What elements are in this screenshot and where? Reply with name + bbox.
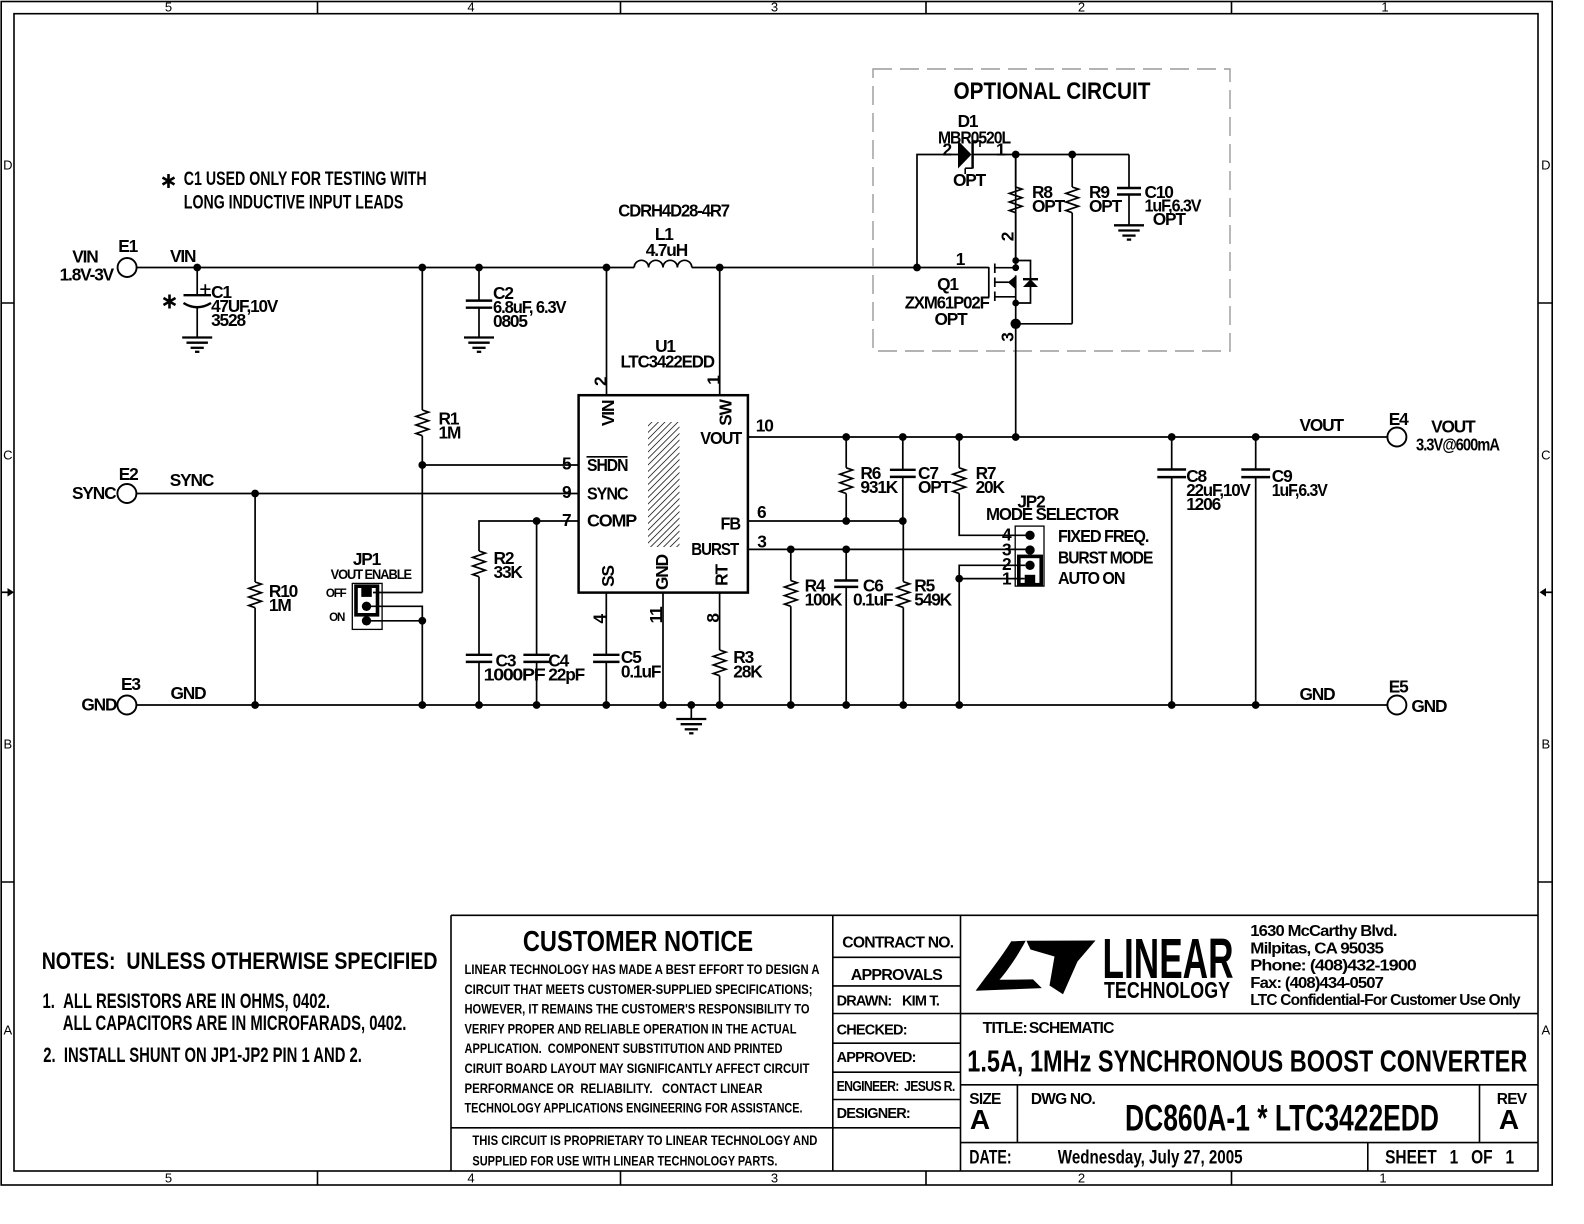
capacitor C1 (polarized, with asterisk) bbox=[164, 268, 279, 338]
svg-text:AUTO ON: AUTO ON bbox=[1058, 568, 1125, 588]
svg-text:GND: GND bbox=[1300, 684, 1336, 704]
svg-text:3: 3 bbox=[771, 0, 778, 15]
svg-text:5: 5 bbox=[165, 0, 172, 15]
svg-text:3: 3 bbox=[771, 1171, 778, 1186]
svg-text:CONTRACT NO.: CONTRACT NO. bbox=[842, 935, 953, 952]
node VIN terminal E1 bbox=[60, 236, 196, 284]
capacitor C2 bbox=[466, 268, 567, 338]
svg-text:GND: GND bbox=[1411, 696, 1447, 716]
svg-text:5: 5 bbox=[165, 1171, 172, 1186]
resistor R3 bbox=[713, 647, 763, 705]
svg-text:GND: GND bbox=[171, 683, 207, 703]
U1 pin 11 GND stub bbox=[646, 593, 666, 705]
capacitor C8 bbox=[1157, 437, 1251, 705]
junction dots GND rail bbox=[251, 701, 1259, 709]
svg-text:SW: SW bbox=[716, 398, 736, 425]
capacitor C4 bbox=[523, 521, 584, 705]
svg-text:OPT: OPT bbox=[1153, 209, 1187, 229]
svg-text:TECHNOLOGY APPLICATIONS ENGINE: TECHNOLOGY APPLICATIONS ENGINEERING FOR … bbox=[465, 1101, 803, 1116]
svg-text:THIS CIRCUIT IS PROPRIETARY TO: THIS CIRCUIT IS PROPRIETARY TO LINEAR TE… bbox=[472, 1133, 817, 1148]
capacitor C7 bbox=[890, 437, 952, 521]
svg-text:MODE SELECTOR: MODE SELECTOR bbox=[986, 504, 1120, 524]
ground symbol on GND rail bbox=[690, 705, 692, 719]
svg-text:VOUT ENABLE: VOUT ENABLE bbox=[331, 567, 412, 583]
svg-text:VOUT: VOUT bbox=[1300, 415, 1345, 435]
resistor R7 bbox=[953, 437, 1026, 535]
svg-text:TECHNOLOGY: TECHNOLOGY bbox=[1104, 977, 1230, 1003]
svg-text:11: 11 bbox=[646, 606, 666, 624]
svg-text:NOTES: UNLESS OTHERWISE SPECI: NOTES: UNLESS OTHERWISE SPECIFIED bbox=[42, 948, 438, 975]
svg-text:2: 2 bbox=[590, 377, 610, 386]
zone tick marks left border bbox=[1, 303, 14, 882]
svg-text:VOUT: VOUT bbox=[700, 428, 743, 448]
zone tick marks right border bbox=[1538, 303, 1552, 882]
svg-text:549K: 549K bbox=[914, 590, 952, 610]
svg-text:B: B bbox=[1541, 737, 1550, 752]
svg-text:1630 McCarthy Blvd.: 1630 McCarthy Blvd. bbox=[1250, 923, 1397, 940]
svg-text:3528: 3528 bbox=[211, 310, 246, 330]
capacitor C5 bbox=[593, 647, 661, 705]
ground below rail bbox=[676, 719, 706, 733]
U1 pin 1 SW stub bbox=[703, 268, 723, 396]
wire SW net (L1 right to Q1 gate, D1 branch) bbox=[692, 155, 989, 268]
node GND terminal E3 bbox=[81, 674, 206, 715]
title block frame lines bbox=[451, 915, 1538, 1171]
svg-text:RT: RT bbox=[712, 564, 732, 586]
wire GND rail (E3 to E5) bbox=[136, 704, 1387, 706]
wire COMP net (U1 pin 7 to R2/C3, C4 branch) bbox=[479, 517, 579, 551]
jumper JP1 VOUT ENABLE bbox=[326, 549, 412, 629]
customer notice text bbox=[465, 926, 820, 1169]
node GND terminal E5 bbox=[1300, 676, 1448, 716]
svg-text:VERIFY PROPER AND RELIABLE OPE: VERIFY PROPER AND RELIABLE OPERATION IN … bbox=[465, 1021, 797, 1036]
zone column numbers top bbox=[165, 0, 1389, 15]
centering arrow right border bbox=[1540, 588, 1553, 597]
svg-text:SHEET 1 OF 1: SHEET 1 OF 1 bbox=[1385, 1148, 1514, 1169]
svg-text:0.1uF: 0.1uF bbox=[621, 662, 661, 682]
svg-text:B: B bbox=[3, 737, 12, 752]
capacitor C3 bbox=[466, 651, 545, 706]
svg-text:C: C bbox=[3, 448, 12, 463]
svg-text:FB: FB bbox=[721, 514, 741, 534]
svg-text:D: D bbox=[3, 158, 12, 173]
U1 pin 2 VIN stub bbox=[590, 268, 610, 396]
svg-text:Wednesday, July 27, 2005: Wednesday, July 27, 2005 bbox=[1058, 1148, 1243, 1169]
note text C1 usage bbox=[163, 169, 427, 213]
svg-text:E2: E2 bbox=[119, 464, 138, 484]
svg-text:SHDN: SHDN bbox=[587, 455, 628, 475]
svg-text:7: 7 bbox=[562, 510, 571, 530]
svg-text:1. ALL RESISTORS ARE IN OHMS,: 1. ALL RESISTORS ARE IN OHMS, 0402. bbox=[43, 990, 331, 1013]
svg-text:1uF,6.3V: 1uF,6.3V bbox=[1272, 480, 1328, 500]
U1 pin 6 number bbox=[757, 502, 766, 522]
op-amp U1 LTC3422EDD box bbox=[579, 336, 748, 593]
svg-text:33K: 33K bbox=[494, 562, 524, 582]
svg-text:SUPPLIED FOR USE WITH LINEAR T: SUPPLIED FOR USE WITH LINEAR TECHNOLOGY … bbox=[472, 1154, 777, 1169]
svg-text:E4: E4 bbox=[1389, 409, 1409, 429]
svg-text:FIXED FREQ.: FIXED FREQ. bbox=[1058, 526, 1149, 546]
svg-text:GND: GND bbox=[652, 554, 672, 590]
ground below C2 bbox=[464, 338, 494, 352]
centering arrow left border bbox=[1, 588, 14, 597]
svg-text:1: 1 bbox=[1379, 1171, 1386, 1186]
svg-text:SYNC: SYNC bbox=[170, 470, 214, 490]
svg-text:DWG NO.: DWG NO. bbox=[1031, 1091, 1096, 1108]
svg-text:OPTIONAL CIRCUIT: OPTIONAL CIRCUIT bbox=[954, 78, 1151, 105]
wire BURST net (U1 pin 3 to JP2 pin 3) bbox=[748, 546, 1026, 554]
svg-text:ENGINEER: JESUS R.: ENGINEER: JESUS R. bbox=[837, 1079, 956, 1095]
optional circuit dashed boundary bbox=[873, 69, 1230, 351]
size / dwg / rev row bbox=[969, 1091, 1527, 1138]
optional circuit title bbox=[954, 78, 1151, 105]
title text bbox=[967, 1020, 1527, 1079]
svg-text:OPT: OPT bbox=[1089, 196, 1123, 216]
svg-text:APPROVALS: APPROVALS bbox=[851, 967, 943, 984]
svg-text:DATE:: DATE: bbox=[969, 1148, 1011, 1169]
svg-text:VIN: VIN bbox=[170, 246, 196, 266]
svg-text:CIRUIT BOARD LAYOUT MAY SIGNIF: CIRUIT BOARD LAYOUT MAY SIGNIFICANTLY AF… bbox=[465, 1061, 811, 1076]
svg-text:3: 3 bbox=[998, 333, 1018, 342]
svg-text:9: 9 bbox=[562, 482, 571, 502]
U1 pin 4 SS stub bbox=[590, 593, 610, 655]
svg-text:1: 1 bbox=[1381, 0, 1388, 15]
svg-text:HOWEVER, IT REMAINS THE CUSTOM: HOWEVER, IT REMAINS THE CUSTOMER'S RESPO… bbox=[465, 1002, 810, 1017]
svg-text:OPT: OPT bbox=[953, 170, 987, 190]
zone column numbers bottom bbox=[165, 1171, 1387, 1186]
svg-text:BURST: BURST bbox=[691, 539, 739, 559]
capacitor C10 bbox=[1117, 155, 1202, 230]
svg-text:4: 4 bbox=[467, 0, 474, 15]
resistor R9 bbox=[1066, 155, 1123, 324]
svg-text:A: A bbox=[3, 1023, 12, 1038]
svg-text:OPT: OPT bbox=[934, 309, 968, 329]
svg-text:Phone: (408)432-1900: Phone: (408)432-1900 bbox=[1250, 958, 1416, 975]
svg-text:DRAWN:: DRAWN: bbox=[837, 994, 892, 1010]
svg-text:GND: GND bbox=[81, 695, 117, 715]
U1 pin 8 RT stub bbox=[703, 593, 723, 650]
svg-text:DC860A-1 * LTC3422EDD: DC860A-1 * LTC3422EDD bbox=[1125, 1097, 1439, 1139]
svg-text:2: 2 bbox=[1078, 0, 1085, 15]
svg-text:A: A bbox=[1541, 1023, 1550, 1038]
capacitor C9 bbox=[1241, 437, 1328, 705]
svg-text:A: A bbox=[970, 1104, 990, 1135]
resistor R8 bbox=[1009, 155, 1065, 261]
svg-text:COMP: COMP bbox=[587, 511, 637, 531]
wire FB net (U1 pin 6 to R6/C7/R5) bbox=[748, 517, 907, 525]
U1 pin 7 number bbox=[562, 510, 571, 530]
notes text block bbox=[42, 948, 438, 1067]
svg-text:ALL CAPACITORS ARE IN MICROFAR: ALL CAPACITORS ARE IN MICROFARADS, 0402. bbox=[63, 1012, 407, 1035]
resistor R5 bbox=[897, 521, 953, 705]
svg-text:KIM T.: KIM T. bbox=[902, 994, 940, 1010]
resistor R1 bbox=[416, 268, 461, 593]
svg-text:1.5A, 1MHz SYNCHRONOUS BOOST C: 1.5A, 1MHz SYNCHRONOUS BOOST CONVERTER bbox=[967, 1043, 1527, 1078]
wire JP1 pin2 to ground drop bbox=[371, 606, 422, 621]
svg-text:OFF: OFF bbox=[326, 587, 347, 600]
zone tick marks top border bbox=[318, 2, 1232, 14]
svg-text:APPLICATION. COMPONENT SUBSTI: APPLICATION. COMPONENT SUBSTITUTION AND … bbox=[465, 1041, 783, 1056]
U1 pin 5 number bbox=[562, 453, 572, 473]
svg-text:VIN: VIN bbox=[598, 400, 618, 426]
date / sheet row bbox=[969, 1148, 1514, 1169]
svg-text:CUSTOMER NOTICE: CUSTOMER NOTICE bbox=[523, 926, 753, 958]
resistor R6 bbox=[840, 437, 899, 521]
svg-text:SYNC: SYNC bbox=[587, 484, 628, 504]
wire JP1 pin3 to ground drop bbox=[371, 617, 426, 705]
svg-text:BURST MODE: BURST MODE bbox=[1058, 547, 1153, 567]
svg-text:1M: 1M bbox=[439, 423, 461, 443]
wire VIN net (E1 to L1 left, with branches down) bbox=[137, 267, 635, 269]
svg-text:CHECKED:: CHECKED: bbox=[837, 1023, 907, 1039]
transistor Q1 ZXM61P02F (P-MOSFET) bbox=[905, 155, 1038, 438]
svg-text:22pF: 22pF bbox=[548, 665, 584, 685]
svg-text:CDRH4D28-4R7: CDRH4D28-4R7 bbox=[618, 200, 729, 220]
svg-text:PERFORMANCE OR RELIABILITY.: PERFORMANCE OR RELIABILITY. CONTACT LINE… bbox=[465, 1081, 763, 1096]
wire R9 bottom to Q1 source node bbox=[1016, 323, 1072, 325]
U1 pin 3 number bbox=[757, 532, 766, 552]
wire SHDN net (R1 to U1 pin 5) bbox=[418, 461, 578, 469]
svg-text:0805: 0805 bbox=[493, 311, 528, 331]
svg-text:TITLE:: TITLE: bbox=[983, 1020, 1027, 1037]
jumper JP2 MODE SELECTOR bbox=[986, 492, 1153, 589]
svg-text:Milpitas, CA 95035: Milpitas, CA 95035 bbox=[1250, 940, 1384, 957]
svg-text:LTC Confidential-For Customer: LTC Confidential-For Customer Use Only bbox=[1250, 992, 1521, 1009]
junction dots VOUT rail bbox=[842, 433, 1259, 441]
svg-text:2: 2 bbox=[998, 232, 1018, 241]
wire SYNC net (E2 to U1 pin 9) bbox=[136, 490, 578, 498]
wire VOUT rail (U1 pin 10 to E4) bbox=[748, 436, 1388, 438]
svg-text:4: 4 bbox=[467, 1171, 474, 1186]
wire JP2 pin1 to ground drop bbox=[955, 575, 1024, 705]
node SYNC terminal E2 bbox=[72, 464, 214, 503]
svg-text:1.8V-3V: 1.8V-3V bbox=[60, 264, 115, 284]
svg-text:LINEAR TECHNOLOGY HAS MADE A B: LINEAR TECHNOLOGY HAS MADE A BEST EFFORT… bbox=[465, 962, 820, 977]
svg-text:LTC3422EDD: LTC3422EDD bbox=[621, 352, 715, 372]
zone row letters right bbox=[1541, 158, 1550, 1038]
svg-text:CIRCUIT THAT MEETS CUSTOMER-SU: CIRCUIT THAT MEETS CUSTOMER-SUPPLIED SPE… bbox=[465, 982, 813, 997]
svg-text:SS: SS bbox=[598, 566, 618, 587]
ground below C1 bbox=[182, 338, 212, 352]
svg-text:C1 USED ONLY FOR TESTING WITH: C1 USED ONLY FOR TESTING WITH bbox=[184, 169, 427, 190]
svg-text:LONG INDUCTIVE INPUT LEADS: LONG INDUCTIVE INPUT LEADS bbox=[184, 192, 403, 213]
wire JP2 pin2 to ground drop bbox=[959, 565, 1025, 578]
svg-text:10: 10 bbox=[756, 415, 773, 435]
svg-text:E1: E1 bbox=[118, 236, 138, 256]
junction dots VIN/SW rails bbox=[193, 264, 921, 272]
Linear Technology logo bbox=[976, 927, 1234, 1003]
svg-text:Fax: (408)434-0507: Fax: (408)434-0507 bbox=[1250, 975, 1383, 992]
resistor R4 bbox=[785, 549, 843, 705]
approvals column text bbox=[837, 935, 956, 1122]
resistor R10 bbox=[249, 494, 298, 706]
svg-text:2: 2 bbox=[1078, 1171, 1085, 1186]
svg-text:E3: E3 bbox=[121, 674, 140, 694]
svg-text:4.7uH: 4.7uH bbox=[646, 240, 688, 260]
svg-text:C: C bbox=[1541, 448, 1550, 463]
zone tick marks bottom border bbox=[318, 1171, 1232, 1185]
address block text bbox=[1250, 923, 1521, 1009]
svg-text:2: 2 bbox=[943, 140, 952, 160]
inductor L1 4.7uH CDRH4D28-4R7 bbox=[618, 200, 729, 267]
ground below C10 bbox=[1114, 225, 1144, 239]
svg-text:20K: 20K bbox=[976, 477, 1006, 497]
svg-text:3.3V@600mA: 3.3V@600mA bbox=[1416, 435, 1500, 455]
svg-text:A: A bbox=[1499, 1104, 1519, 1135]
svg-text:VOUT: VOUT bbox=[1431, 416, 1476, 436]
svg-text:APPROVED:: APPROVED: bbox=[837, 1050, 916, 1066]
svg-text:6: 6 bbox=[757, 502, 766, 522]
svg-text:100K: 100K bbox=[805, 590, 843, 610]
resistor R2 bbox=[473, 548, 524, 655]
svg-text:Q1: Q1 bbox=[937, 274, 959, 294]
diode D1 MBR0520L (Schottky) bbox=[938, 111, 1011, 190]
svg-text:931K: 931K bbox=[860, 477, 898, 497]
svg-text:DESIGNER:: DESIGNER: bbox=[837, 1106, 910, 1122]
svg-text:SCHEMATIC: SCHEMATIC bbox=[1029, 1020, 1114, 1037]
U1 pin 9 number bbox=[562, 482, 571, 502]
svg-text:0.1uF: 0.1uF bbox=[853, 590, 893, 610]
capacitor C6 bbox=[834, 549, 893, 705]
svg-text:1M: 1M bbox=[269, 595, 291, 615]
svg-text:28K: 28K bbox=[733, 662, 763, 682]
U1 pin 10 number bbox=[756, 415, 773, 435]
svg-text:1206: 1206 bbox=[1186, 494, 1220, 514]
svg-text:OPT: OPT bbox=[918, 477, 952, 497]
wire R1 bottom to JP1 OFF pin bbox=[373, 592, 422, 594]
svg-text:2. INSTALL SHUNT ON JP1-JP2 P: 2. INSTALL SHUNT ON JP1-JP2 PIN 1 AND 2. bbox=[43, 1044, 362, 1067]
svg-text:D: D bbox=[1541, 158, 1550, 173]
svg-text:OPT: OPT bbox=[1032, 196, 1066, 216]
svg-text:ON: ON bbox=[329, 611, 345, 624]
zone row letters left bbox=[3, 158, 12, 1038]
node VOUT terminal E4 bbox=[1300, 409, 1501, 455]
svg-text:E5: E5 bbox=[1389, 676, 1409, 696]
svg-text:SYNC: SYNC bbox=[72, 483, 116, 503]
wire D1 cathode rail to C10 bbox=[973, 151, 1129, 159]
